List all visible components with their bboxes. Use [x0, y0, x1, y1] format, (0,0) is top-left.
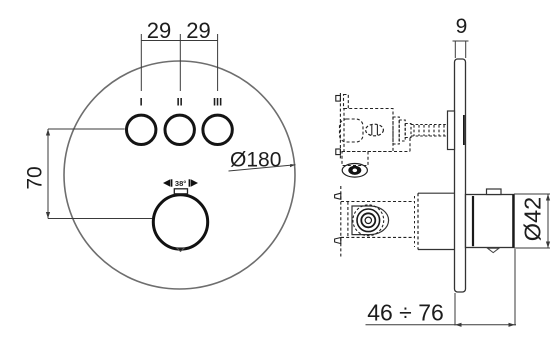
svg-text:III: III	[213, 97, 222, 109]
dimension line 29 29	[141, 40, 217, 42]
38 degree left arrow	[163, 179, 170, 186]
svg-text:I: I	[140, 97, 143, 109]
plate hole shading upper	[463, 115, 465, 145]
dimension 70 arrow bottom	[46, 212, 50, 219]
front view trim plate circle Ø180	[64, 61, 295, 289]
knob side view body	[466, 195, 515, 248]
lower valve flange dashed	[335, 186, 348, 257]
lower cylinder before plate solid	[418, 193, 455, 249]
dimension Ø42 arrows	[546, 194, 550, 201]
Ø180 leader line	[229, 165, 296, 171]
extension line button III	[217, 34, 219, 91]
dimension Ø42 line	[547, 194, 549, 248]
38 degree right arrow	[191, 179, 198, 186]
svg-text:46 ÷ 76: 46 ÷ 76	[367, 300, 444, 326]
dimension 9 extension lines	[454, 41, 456, 58]
dimension 70 extension line top	[48, 128, 125, 130]
dimension 46÷76 line	[366, 324, 517, 326]
upper valve top-left notch dashed	[344, 95, 349, 109]
upper valve body flange dashed	[336, 93, 341, 159]
upper valve shaft dashed	[411, 125, 448, 137]
Ø180 leader arrow	[290, 164, 296, 167]
lower valve concentric circles	[353, 205, 384, 236]
svg-text:9: 9	[456, 15, 468, 38]
svg-text:38°: 38°	[175, 179, 186, 188]
dimension 70 extension line bottom	[48, 218, 152, 220]
lower valve cap D-shape solid	[352, 206, 389, 235]
lower valve body dashed rectangle	[341, 202, 415, 238]
knob side tab	[487, 189, 502, 195]
button II circle	[165, 115, 194, 144]
svg-text:Ø42: Ø42	[520, 197, 546, 241]
knob side bottom pointer	[488, 248, 500, 252]
knob tab front	[174, 189, 187, 194]
upper valve lower oval outline	[342, 164, 367, 178]
dimension 9 line	[453, 40, 469, 42]
button III circle	[203, 115, 232, 144]
knob side face edge thick	[512, 195, 514, 248]
extension line button II	[179, 34, 181, 91]
dimension 70 line	[47, 129, 49, 219]
wall plate side view	[455, 59, 466, 292]
svg-text:29: 29	[147, 18, 171, 43]
upper valve capsule dashed	[340, 119, 364, 142]
button I circle	[127, 115, 156, 144]
knob side shading line	[472, 196, 474, 246]
knob circle front	[153, 195, 207, 249]
dimension 46÷76 extension right (knob face)	[514, 249, 516, 326]
svg-text:70: 70	[24, 166, 47, 189]
dimension 70 arrow top	[46, 129, 50, 136]
dimension Ø42 extension bottom	[514, 247, 550, 249]
dimension 46÷76 extension left (plate)	[454, 293, 456, 326]
extension line button I	[140, 34, 142, 91]
dimension Ø42 extension top	[514, 193, 550, 195]
upper valve lower dark ring	[348, 166, 361, 175]
upper valve stepped cone dashed	[393, 117, 411, 144]
svg-text:II: II	[177, 97, 183, 109]
upper valve oval detail dashed	[366, 124, 384, 136]
knob bottom pointer	[177, 248, 185, 252]
dimension 46÷76 arrows	[455, 323, 462, 327]
upper shaft bracket at plate	[448, 111, 455, 150]
svg-text:29: 29	[186, 18, 210, 43]
upper valve body rectangle dashed	[344, 109, 393, 152]
lower cylinder left broken edge	[417, 193, 419, 249]
upper valve bottom hidden line	[342, 151, 410, 153]
upper valve lower attachment dashed	[342, 152, 368, 166]
